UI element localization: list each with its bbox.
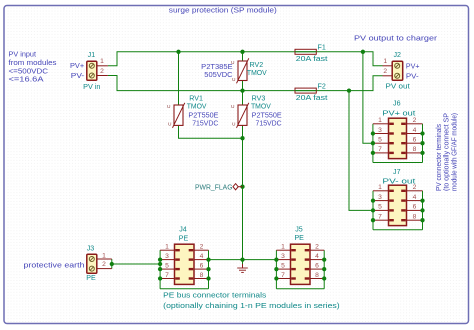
svg-text:20A fast: 20A fast [296,94,328,102]
junction node PWR_FLAG [240,185,244,189]
svg-text:J7: J7 [393,168,401,176]
wire PE horizontal bus J4 to J5 [209,259,277,261]
svg-text:U: U [232,121,236,127]
junction node PV+/RV1 [176,50,180,54]
wire RV1 top [178,52,180,105]
svg-text:8: 8 [413,214,417,221]
svg-text:module with GF/AF module): module with GF/AF module) [450,113,458,191]
svg-text:PE: PE [86,274,96,282]
svg-text:8: 8 [315,272,319,279]
svg-text:2: 2 [100,68,104,75]
svg-text:4: 4 [200,253,204,260]
svg-text:4: 4 [315,253,319,260]
svg-text:PV- out: PV- out [382,178,415,186]
svg-text:PE: PE [179,234,189,242]
connector J5 [274,226,326,289]
svg-text:TMOV: TMOV [251,102,271,110]
svg-text:J3: J3 [87,244,95,252]
svg-text:PV in: PV in [83,83,100,91]
svg-text:1: 1 [281,244,285,251]
svg-text:PV+ out: PV+ out [382,109,415,117]
svg-text:protective earth: protective earth [24,262,85,270]
svg-text:from modules: from modules [9,59,57,67]
svg-text:2: 2 [413,117,417,124]
svg-text:<=16.6A: <=16.6A [9,76,44,84]
svg-text:PV+: PV+ [406,62,420,70]
ground symbol GND [237,260,248,273]
svg-text:505VDC: 505VDC [204,71,232,79]
svg-text:2: 2 [102,261,106,268]
svg-text:3: 3 [378,127,382,134]
svg-text:PV out: PV out [386,82,410,90]
svg-text:PE: PE [294,234,304,242]
svg-text:P2T550E: P2T550E [252,111,282,119]
wire PV+ branch down to J6 feed [363,52,373,143]
svg-text:2: 2 [413,184,417,191]
svg-text:1: 1 [383,58,387,65]
connector J3 [86,244,112,281]
svg-text:7: 7 [281,272,285,279]
svg-text:RV2: RV2 [250,61,264,69]
svg-text:1: 1 [378,184,382,191]
svg-text:8: 8 [413,146,417,153]
svg-text:PV input: PV input [9,51,37,59]
connector J4 [158,226,211,289]
svg-text:4: 4 [413,127,417,134]
connector J1 [70,51,108,91]
svg-text:20A fast: 20A fast [296,55,328,63]
svg-text:715VDC: 715VDC [256,120,282,128]
wire PV+ net: J1.1 to F1 to J2.1 [108,52,383,66]
svg-text:2: 2 [315,244,319,251]
junction node RV3 bottom [240,136,244,140]
wire PV- branch down to J7 feed [349,91,373,211]
junction node J3 split [110,262,114,266]
svg-text:PV output to charger: PV output to charger [354,34,438,42]
wire RV3 pins [242,91,244,105]
junction node PV-/J7 branch [347,88,351,92]
svg-text:5: 5 [165,262,169,269]
svg-text:5: 5 [378,204,382,211]
svg-text:1: 1 [102,253,106,260]
svg-text:(optionally chaining 1-n PE mo: (optionally chaining 1-n PE modules in s… [163,302,340,310]
svg-text:TMOV: TMOV [247,69,267,77]
svg-text:U: U [167,104,171,110]
svg-text:715VDC: 715VDC [192,120,218,128]
svg-text:PV-: PV- [71,72,85,80]
svg-text:J5: J5 [295,226,303,234]
svg-text:PV+: PV+ [70,62,84,70]
svg-text:J4: J4 [179,226,187,234]
svg-text:PV-: PV- [406,72,420,80]
svg-text:7: 7 [165,272,169,279]
svg-text:U: U [232,77,236,83]
svg-text:6: 6 [413,204,417,211]
connector J7 [371,168,425,230]
svg-text:1: 1 [165,244,169,251]
svg-text:PWR_FLAG: PWR_FLAG [195,184,233,191]
wire RV bottoms to PE vertical [179,125,243,138]
power flag PWR_FLAG [195,184,243,192]
svg-text:7: 7 [378,214,382,221]
svg-text:7: 7 [378,146,382,153]
junction node PV+/RV2 [240,50,244,54]
svg-text:5: 5 [378,137,382,144]
svg-text:U: U [168,121,172,127]
connector J6 [371,100,425,163]
svg-text:P2T550E: P2T550E [188,111,218,119]
svg-text:F1: F1 [318,44,326,52]
fuse F1 [295,44,327,64]
varistor RV2 [201,58,267,83]
wire RV2 pins [242,52,244,61]
svg-text:3: 3 [378,194,382,201]
svg-text:F2: F2 [318,82,326,90]
svg-text:PE bus connector terminals: PE bus connector terminals [163,292,267,300]
svg-text:TMOV: TMOV [187,102,207,110]
wire J3 split to J4 [111,259,113,269]
svg-text:2: 2 [200,244,204,251]
varistor RV3 [231,95,282,128]
svg-text:U: U [231,104,235,110]
svg-text:3: 3 [165,253,169,260]
svg-text:4: 4 [413,194,417,201]
svg-text:P2T385E: P2T385E [201,63,233,71]
wire PE vertical down to ground bus [242,138,244,259]
svg-text:8: 8 [200,272,204,279]
svg-text:J1: J1 [88,51,96,59]
svg-text:3: 3 [281,253,285,260]
junction node ground tap [240,257,244,261]
junction node PV-/RV2/RV3 [240,88,244,92]
svg-text:<=500VDC: <=500VDC [9,67,49,75]
svg-text:6: 6 [315,262,319,269]
wire PV- net: J1.2 to F2 to J2.2 [108,76,383,91]
svg-text:J2: J2 [393,51,401,59]
svg-text:2: 2 [383,68,387,75]
svg-text:6: 6 [413,137,417,144]
svg-text:1: 1 [100,58,104,65]
svg-text:J6: J6 [393,100,401,108]
svg-text:surge protection (SP module): surge protection (SP module) [169,7,277,15]
fuse F2 [295,82,327,102]
svg-text:5: 5 [281,262,285,269]
svg-text:6: 6 [200,262,204,269]
junction node PV+/J6 branch [361,50,365,54]
svg-text:1: 1 [378,117,382,124]
note (rotated): PV connector terminals (to optionally connect SP module with GF/AF module) [435,113,458,191]
connector J2 [383,51,420,90]
varistor RV1 [167,95,219,128]
